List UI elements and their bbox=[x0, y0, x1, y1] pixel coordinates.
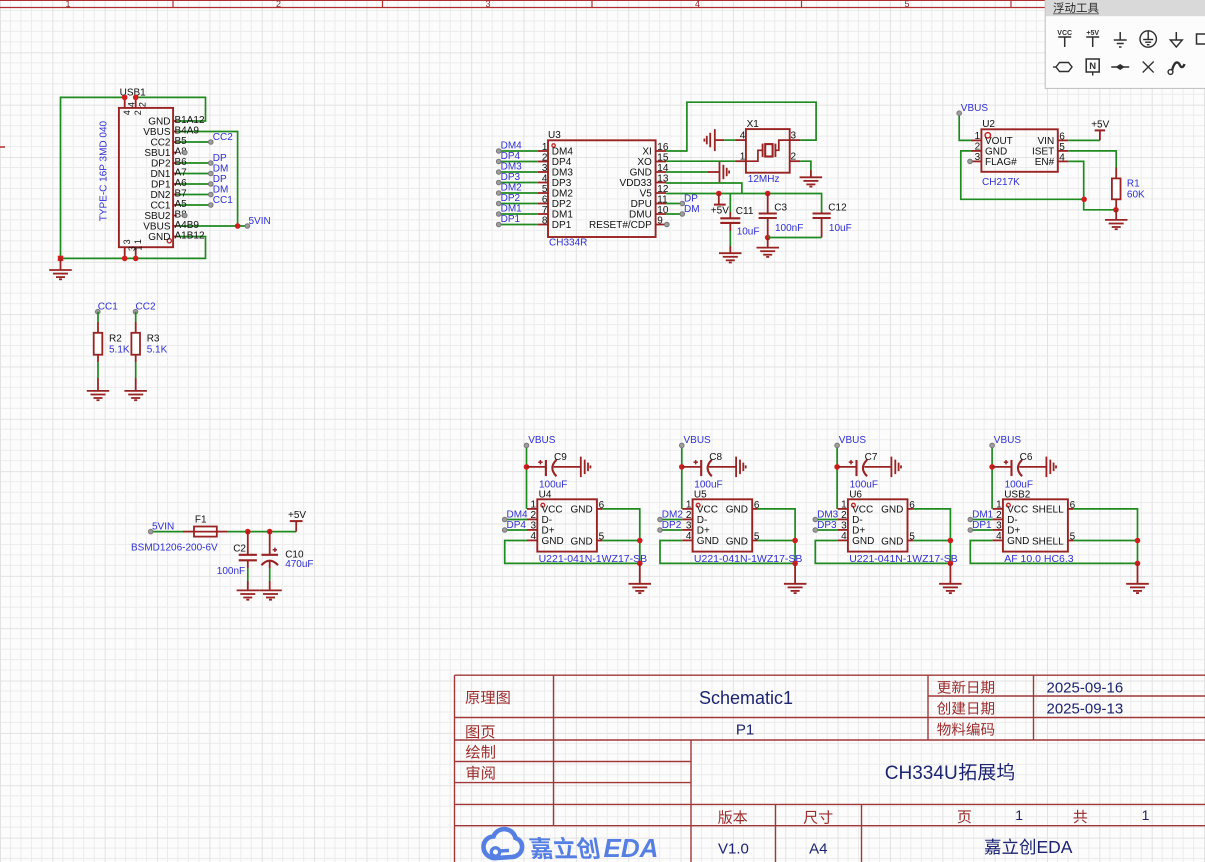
wire DP1 net bbox=[177, 183, 211, 185]
junction C10 top bbox=[267, 529, 273, 535]
wire DP3 to U3 pin 4 bbox=[499, 182, 538, 184]
svg-text:DM4: DM4 bbox=[507, 509, 529, 520]
svg-text:+5V: +5V bbox=[1086, 30, 1099, 37]
junction USB2 pin5 bbox=[1135, 538, 1141, 544]
svg-text:SBU2: SBU2 bbox=[144, 211, 171, 222]
power +5V at U2 bbox=[1091, 120, 1109, 141]
svg-text:1: 1 bbox=[1142, 807, 1150, 823]
wire DPU net bbox=[666, 203, 682, 205]
svg-text:3: 3 bbox=[542, 163, 548, 174]
toolbar icon signal gnd bbox=[1170, 32, 1182, 47]
wire DP1 to USB2 pin3 bbox=[970, 529, 992, 531]
wire VBUS to U4 bbox=[526, 445, 528, 509]
svg-text:GND: GND bbox=[542, 536, 564, 547]
svg-text:6: 6 bbox=[1059, 132, 1065, 143]
svg-text:B5: B5 bbox=[175, 136, 188, 147]
wire VBUS to U2 VOUT bbox=[959, 113, 971, 140]
svg-text:4: 4 bbox=[1059, 153, 1065, 164]
svg-text:DM2: DM2 bbox=[552, 189, 574, 200]
wire ISET to R1 bbox=[1068, 151, 1116, 179]
node RESET open bbox=[665, 222, 670, 227]
ground U5 bbox=[784, 563, 807, 593]
svg-text:C12: C12 bbox=[828, 202, 847, 213]
svg-text:+5V: +5V bbox=[711, 206, 729, 217]
svg-text:DM2: DM2 bbox=[501, 183, 523, 194]
crystal X1 reference label bbox=[747, 119, 760, 130]
wire U4 pin6 to rail bbox=[602, 509, 640, 564]
svg-text:RESET#/CDP: RESET#/CDP bbox=[589, 220, 652, 231]
wire C3 C12 gnd rail bbox=[768, 237, 822, 239]
svg-text:11: 11 bbox=[657, 195, 668, 206]
svg-text:5: 5 bbox=[904, 0, 909, 9]
svg-text:2025-09-16: 2025-09-16 bbox=[1047, 680, 1124, 697]
node DP2 label at U5 bbox=[658, 520, 682, 533]
svg-text:DP4: DP4 bbox=[501, 151, 521, 162]
junction C8 cap tap bbox=[679, 464, 685, 470]
junction USB1 top b bbox=[133, 95, 139, 101]
svg-text:B1A12: B1A12 bbox=[175, 115, 205, 126]
wire X1 pin4 to gnd bbox=[724, 139, 735, 141]
svg-text:1: 1 bbox=[133, 239, 143, 244]
svg-text:V1.0: V1.0 bbox=[718, 840, 749, 857]
junction C6 cap tap bbox=[989, 464, 995, 470]
ground C10 bbox=[259, 590, 282, 599]
connector USB1 TYPE-C 16P 3MD 040 bbox=[98, 97, 205, 258]
toolbar icon no-connect bbox=[1143, 62, 1154, 73]
junction USB1 top a bbox=[122, 95, 128, 101]
svg-text:DP2: DP2 bbox=[501, 193, 521, 204]
ground C2 bbox=[237, 590, 260, 599]
junction 5VIN bbox=[235, 223, 241, 229]
svg-text:2: 2 bbox=[841, 510, 847, 521]
svg-text:D+: D+ bbox=[852, 525, 865, 536]
node DM2 label at U5 bbox=[658, 509, 684, 522]
wire R3 to gnd bbox=[135, 355, 137, 391]
ground X1 pin2 bbox=[800, 170, 823, 187]
svg-text:A6: A6 bbox=[175, 178, 188, 189]
junction R1 bottom bbox=[1113, 207, 1119, 213]
svg-text:1: 1 bbox=[65, 0, 70, 9]
svg-text:C2: C2 bbox=[233, 544, 246, 555]
svg-text:D+: D+ bbox=[542, 525, 555, 536]
svg-text:V5: V5 bbox=[640, 189, 653, 200]
svg-text:U221-041N-1WZ17-SB: U221-041N-1WZ17-SB bbox=[694, 553, 803, 565]
wire 5VIN to F1 bbox=[151, 531, 194, 533]
svg-text:1: 1 bbox=[975, 131, 981, 142]
title block table bbox=[455, 675, 1205, 862]
svg-text:DM4: DM4 bbox=[552, 147, 574, 158]
toolbar icon netport bbox=[1086, 59, 1099, 76]
svg-text:BSMD1206-200-6V: BSMD1206-200-6V bbox=[131, 543, 218, 554]
svg-text:4: 4 bbox=[686, 531, 692, 542]
svg-text:GND: GND bbox=[148, 232, 170, 243]
svg-text:7: 7 bbox=[542, 205, 548, 216]
node DP at U3 bbox=[680, 193, 698, 205]
svg-text:XI: XI bbox=[642, 147, 651, 158]
svg-text:DP4: DP4 bbox=[507, 520, 527, 531]
svg-text:VBUS: VBUS bbox=[143, 127, 171, 138]
svg-text:A7: A7 bbox=[175, 167, 188, 178]
wire DM4 to U3 pin 1 bbox=[499, 150, 538, 152]
svg-text:DM3: DM3 bbox=[817, 509, 839, 520]
floating toolbar panel bbox=[1045, 0, 1205, 88]
svg-text:16: 16 bbox=[657, 142, 669, 153]
capacitor C6 100uF bbox=[992, 452, 1046, 491]
svg-text:GND: GND bbox=[726, 536, 748, 547]
ground USB2 bbox=[1126, 563, 1149, 593]
junction C3 bottom bbox=[765, 235, 771, 241]
svg-text:2: 2 bbox=[276, 0, 281, 9]
svg-text:D-: D- bbox=[697, 515, 708, 526]
wire USB2 pin6 to rail bbox=[1073, 509, 1137, 564]
wire U5 gnd loop bbox=[660, 541, 795, 564]
svg-text:DP4: DP4 bbox=[552, 157, 572, 168]
node DM3 label at U6 bbox=[813, 509, 839, 522]
svg-text:DP1: DP1 bbox=[552, 220, 572, 231]
resistor R3 5.1K bbox=[131, 333, 167, 356]
toolbar icon GND bbox=[1114, 32, 1127, 47]
wire VBUS to USB2 bbox=[991, 445, 993, 509]
crystal X1 12MHz bbox=[735, 129, 800, 185]
wire DM3 to U6 pin2 bbox=[815, 519, 837, 521]
svg-text:DM4: DM4 bbox=[501, 141, 523, 152]
svg-text:4: 4 bbox=[695, 0, 700, 9]
svg-text:4: 4 bbox=[841, 531, 847, 542]
wire U6 pin6 to rail bbox=[913, 509, 951, 564]
IC U5 reference label bbox=[694, 490, 707, 501]
capacitor C8 100uF bbox=[682, 452, 736, 491]
wire DMU net bbox=[666, 213, 682, 215]
svg-text:5.1K: 5.1K bbox=[109, 345, 130, 356]
junction U4 pin5 bbox=[637, 538, 643, 544]
node DP at USB1 pin DP2 bbox=[209, 153, 228, 166]
svg-text:CC1: CC1 bbox=[150, 201, 170, 212]
node VBUS at U4 bbox=[524, 435, 556, 448]
IC U2 CH217K bbox=[971, 129, 1068, 188]
svg-text:C9: C9 bbox=[554, 452, 567, 463]
svg-text:D+: D+ bbox=[1007, 525, 1020, 536]
svg-text:DP1: DP1 bbox=[151, 180, 171, 191]
svg-text:13: 13 bbox=[657, 174, 669, 185]
toolbar icon +5V bbox=[1086, 30, 1099, 47]
svg-text:AF 10.0 HC6.3: AF 10.0 HC6.3 bbox=[1004, 553, 1074, 565]
node FLAG open bbox=[968, 159, 973, 164]
svg-text:FLAG#: FLAG# bbox=[985, 157, 1017, 168]
svg-text:VBUS: VBUS bbox=[528, 435, 556, 446]
svg-text:5: 5 bbox=[542, 184, 548, 195]
svg-text:12MHz: 12MHz bbox=[748, 174, 780, 185]
svg-text:GND: GND bbox=[881, 536, 903, 547]
svg-text:B4A9: B4A9 bbox=[175, 125, 200, 136]
svg-text:DM1: DM1 bbox=[552, 210, 574, 221]
svg-text:DP1: DP1 bbox=[972, 520, 992, 531]
left ruler tick bbox=[0, 146, 5, 148]
svg-text:CC2: CC2 bbox=[213, 132, 233, 143]
svg-text:DM2: DM2 bbox=[662, 509, 684, 520]
ground U4 bbox=[629, 563, 652, 593]
resistor R1 60K bbox=[1112, 178, 1145, 200]
svg-text:VIN: VIN bbox=[1038, 136, 1055, 147]
wire EN to R1 bottom bbox=[1068, 161, 1116, 209]
svg-text:5VIN: 5VIN bbox=[249, 216, 271, 227]
svg-text:N: N bbox=[1089, 61, 1096, 72]
wire DM4 to U4 pin2 bbox=[505, 519, 527, 521]
svg-text:DM: DM bbox=[213, 184, 229, 195]
node DP3 label at U6 bbox=[813, 520, 837, 533]
svg-text:3: 3 bbox=[531, 521, 537, 532]
svg-text:DN1: DN1 bbox=[150, 169, 170, 180]
IC USB2 AF 10.0 HC6.3 bbox=[993, 499, 1076, 565]
svg-text:VBUS: VBUS bbox=[143, 222, 171, 233]
wire DP2 to U3 pin 6 bbox=[499, 203, 538, 205]
svg-text:DP3: DP3 bbox=[501, 172, 521, 183]
node SBU1 open bbox=[183, 150, 188, 155]
svg-text:F1: F1 bbox=[195, 515, 207, 526]
svg-text:ISET: ISET bbox=[1032, 146, 1054, 157]
node SBU2 open bbox=[183, 213, 188, 218]
ground C3 bbox=[757, 238, 780, 257]
junction C7 cap tap bbox=[834, 464, 840, 470]
svg-text:XO: XO bbox=[637, 157, 652, 168]
node VBUS at USB2 bbox=[990, 435, 1022, 448]
wire VDD33 rail bbox=[666, 183, 742, 194]
node DM1 label at U3 bbox=[496, 204, 522, 217]
svg-text:EDA: EDA bbox=[1037, 837, 1073, 857]
svg-text:2: 2 bbox=[975, 142, 981, 153]
wire DM1 to U3 pin 7 bbox=[499, 213, 538, 215]
toolbar icon VCC bbox=[1057, 30, 1072, 47]
node DM4 label at U3 bbox=[496, 141, 522, 154]
junction U2 gnd net bbox=[1081, 197, 1087, 203]
wire USB1 top gnd bbox=[136, 97, 206, 121]
capacitor C12 10uF bbox=[813, 202, 852, 237]
svg-text:R2: R2 bbox=[109, 334, 122, 345]
wire USB2 pin5 to rail bbox=[1073, 540, 1137, 542]
svg-text:GND: GND bbox=[985, 146, 1007, 157]
svg-text:4: 4 bbox=[996, 531, 1002, 542]
svg-text:CH217K: CH217K bbox=[982, 177, 1020, 188]
svg-text:U221-041N-1WZ17-SB: U221-041N-1WZ17-SB bbox=[539, 553, 648, 565]
svg-text:DM3: DM3 bbox=[552, 168, 574, 179]
svg-text:A5: A5 bbox=[175, 199, 188, 210]
IC U2 reference label bbox=[982, 119, 995, 130]
svg-text:2: 2 bbox=[133, 110, 143, 115]
svg-text:R1: R1 bbox=[1127, 179, 1140, 190]
wire DP2 to U5 pin3 bbox=[660, 529, 682, 531]
svg-text:1: 1 bbox=[531, 500, 537, 511]
node DM at USB1 pin DN2 bbox=[209, 184, 229, 197]
svg-text:SBU1: SBU1 bbox=[144, 148, 171, 159]
ground X1 pin4 bbox=[704, 129, 724, 151]
junction USB2 gnd bbox=[1135, 561, 1141, 567]
svg-text:2: 2 bbox=[996, 510, 1002, 521]
junction U5 pin5 bbox=[792, 538, 798, 544]
IC U3 CH334R bbox=[538, 140, 669, 248]
svg-text:DP: DP bbox=[213, 153, 227, 164]
svg-text:D-: D- bbox=[852, 515, 863, 526]
capacitor C3 100nF bbox=[759, 194, 804, 238]
svg-text:8: 8 bbox=[542, 215, 548, 226]
wire R2 to gnd bbox=[97, 355, 99, 391]
svg-text:3: 3 bbox=[841, 521, 847, 532]
svg-text:P1: P1 bbox=[736, 722, 754, 739]
svg-text:C8: C8 bbox=[709, 452, 722, 463]
svg-text:1: 1 bbox=[1015, 807, 1023, 823]
ground USB1 bbox=[49, 258, 72, 279]
svg-text:D-: D- bbox=[1007, 515, 1018, 526]
svg-text:DM1: DM1 bbox=[972, 509, 994, 520]
svg-text:VCC: VCC bbox=[1057, 30, 1072, 37]
svg-text:4: 4 bbox=[531, 531, 537, 542]
wire U2 VIN +5V bbox=[1068, 139, 1100, 141]
IC U6 U221-041N-1WZ17-SB bbox=[838, 499, 958, 565]
wire U6 pin5 to rail bbox=[913, 540, 951, 542]
svg-text:GND: GND bbox=[148, 117, 170, 128]
node DP2 label at U3 bbox=[496, 193, 520, 206]
wire VBUS to U5 bbox=[681, 445, 683, 509]
node CC2 at USB1 bbox=[209, 132, 234, 145]
wire VBUS to U6 bbox=[836, 445, 838, 509]
wire CC1 to R2 bbox=[97, 312, 99, 333]
svg-text:10uF: 10uF bbox=[829, 223, 852, 234]
svg-text:C6: C6 bbox=[1020, 452, 1033, 463]
ground C6 bbox=[1046, 457, 1056, 478]
wire XI to crystal bbox=[666, 102, 816, 151]
svg-text:4: 4 bbox=[542, 173, 548, 184]
svg-text:6: 6 bbox=[542, 194, 548, 205]
svg-text:15: 15 bbox=[657, 153, 669, 164]
svg-text:EN#: EN# bbox=[1035, 157, 1055, 168]
wire DM2 to U5 pin2 bbox=[660, 519, 682, 521]
junction U6 gnd bbox=[948, 561, 954, 567]
node CC1 at R2 bbox=[96, 301, 119, 314]
svg-text:GND: GND bbox=[630, 168, 652, 179]
svg-text:DN2: DN2 bbox=[150, 190, 170, 201]
svg-text:60K: 60K bbox=[1127, 190, 1145, 201]
junction USB1 bottom b bbox=[133, 256, 139, 262]
IC USB2 reference label bbox=[1004, 490, 1031, 501]
svg-text:2: 2 bbox=[542, 152, 548, 163]
svg-text:DP3: DP3 bbox=[552, 178, 572, 189]
wire DM3 to U3 pin 3 bbox=[499, 171, 538, 173]
capacitor C11 10uF bbox=[720, 194, 759, 254]
svg-text:DP2: DP2 bbox=[662, 520, 682, 531]
svg-text:2: 2 bbox=[686, 510, 692, 521]
power +5V at U3 bbox=[711, 194, 729, 217]
node DM1 label at USB2 bbox=[968, 509, 994, 522]
svg-text:C7: C7 bbox=[865, 452, 878, 463]
svg-text:VBUS: VBUS bbox=[839, 435, 867, 446]
svg-text:DM3: DM3 bbox=[501, 162, 523, 173]
svg-text:1: 1 bbox=[996, 500, 1002, 511]
junction C3 top bbox=[765, 191, 771, 197]
wire U5 pin5 to rail bbox=[758, 540, 796, 542]
node VBUS at U2 bbox=[957, 103, 988, 116]
wire F1 to +5V bbox=[217, 531, 296, 533]
svg-text:10uF: 10uF bbox=[737, 227, 760, 238]
capacitor C9 100uF bbox=[527, 452, 581, 491]
node DP at USB1 pin DP1 bbox=[209, 174, 228, 187]
ground C7 bbox=[891, 457, 901, 478]
capacitor C2 100nF bbox=[217, 532, 257, 591]
svg-text:DP3: DP3 bbox=[817, 520, 837, 531]
svg-text:A4B9: A4B9 bbox=[175, 220, 200, 231]
svg-text:100uF: 100uF bbox=[1005, 479, 1033, 490]
svg-text:CH334U: CH334U bbox=[885, 763, 958, 784]
svg-text:DP: DP bbox=[684, 193, 698, 204]
svg-text:VDD33: VDD33 bbox=[620, 178, 653, 189]
svg-text:VBUS: VBUS bbox=[684, 435, 712, 446]
svg-text:2: 2 bbox=[531, 510, 537, 521]
IC U5 U221-041N-1WZ17-SB bbox=[682, 499, 802, 565]
power +5V at F1 bbox=[288, 510, 306, 532]
svg-text:TYPE-C 16P 3MD 040: TYPE-C 16P 3MD 040 bbox=[98, 120, 109, 221]
svg-text:EDA: EDA bbox=[604, 833, 659, 862]
svg-text:VCC: VCC bbox=[1007, 504, 1028, 515]
ruler bbox=[0, 0, 1205, 9]
svg-text:100uF: 100uF bbox=[694, 479, 722, 490]
IC U3 reference label bbox=[548, 130, 561, 141]
wire U4 gnd loop bbox=[505, 541, 640, 564]
svg-text:GND: GND bbox=[697, 536, 719, 547]
junction U4 gnd bbox=[637, 561, 643, 567]
capacitor C7 100uF bbox=[837, 452, 891, 491]
svg-text:+5V: +5V bbox=[1091, 120, 1109, 131]
node DP3 label at U3 bbox=[496, 172, 520, 185]
fuse F1 BSMD1206-200-6V bbox=[131, 515, 218, 554]
svg-text:12: 12 bbox=[657, 184, 669, 195]
svg-text:VCC: VCC bbox=[542, 504, 563, 515]
ground R3 bbox=[124, 391, 146, 400]
node DP4 label at U3 bbox=[496, 151, 520, 164]
junction U6 pin5 bbox=[948, 538, 954, 544]
svg-text:5: 5 bbox=[1059, 142, 1065, 153]
node DP4 label at U4 bbox=[502, 520, 526, 533]
svg-text:D+: D+ bbox=[697, 525, 710, 536]
svg-text:100uF: 100uF bbox=[539, 479, 567, 490]
svg-text:VBUS: VBUS bbox=[994, 435, 1022, 446]
node CC1 at USB1 bbox=[209, 195, 234, 208]
resistor R2 5.1K bbox=[94, 333, 130, 356]
ground R1 bbox=[1105, 210, 1128, 229]
svg-text:100nF: 100nF bbox=[217, 566, 245, 577]
svg-text:GND: GND bbox=[1007, 536, 1029, 547]
IC U4 reference label bbox=[539, 490, 552, 501]
wire DP4 to U4 pin3 bbox=[505, 529, 527, 531]
node DM at U3 bbox=[680, 204, 700, 216]
svg-text:D-: D- bbox=[542, 515, 553, 526]
title block text bbox=[466, 680, 1150, 858]
svg-text:B6: B6 bbox=[175, 157, 188, 168]
toolbar icon rect bbox=[1197, 34, 1205, 44]
svg-text:VOUT: VOUT bbox=[985, 136, 1013, 147]
wire U2 GND net bbox=[961, 151, 1084, 199]
toolbar icon probe bbox=[1168, 62, 1184, 74]
wire DM2 to U3 pin 5 bbox=[499, 192, 538, 194]
junction C2 top bbox=[245, 529, 251, 535]
svg-text:SHELL: SHELL bbox=[1032, 505, 1064, 516]
svg-text:DM1: DM1 bbox=[501, 204, 523, 215]
svg-text:GND: GND bbox=[881, 505, 903, 516]
node DP1 label at U3 bbox=[496, 214, 520, 227]
wire R1 bottom bbox=[1115, 199, 1117, 210]
wire U4 pin5 to rail bbox=[602, 540, 640, 542]
wire U6 gnd loop bbox=[815, 541, 950, 564]
IC U4 U221-041N-1WZ17-SB bbox=[527, 499, 647, 565]
junction USB1 corner bbox=[58, 256, 63, 261]
junction USB1 bottom a bbox=[122, 256, 128, 262]
svg-text:DPU: DPU bbox=[631, 199, 652, 210]
